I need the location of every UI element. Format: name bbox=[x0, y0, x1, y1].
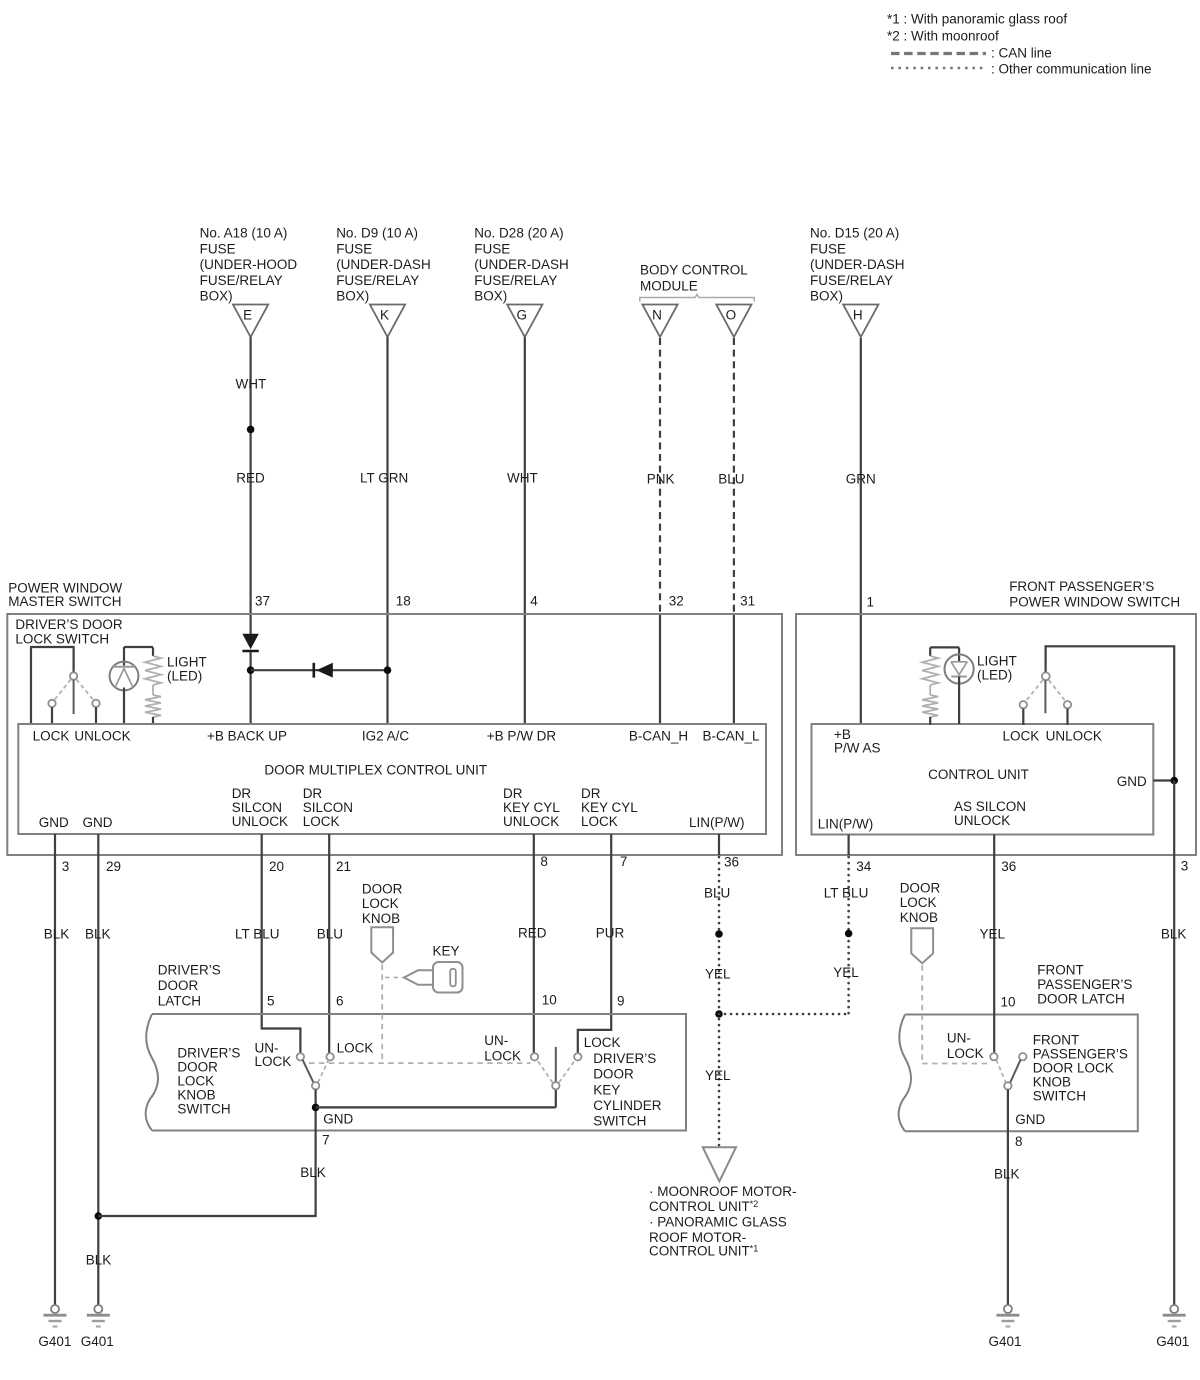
svg-text:FUSE: FUSE bbox=[200, 241, 236, 256]
svg-text:BLK: BLK bbox=[994, 1167, 1020, 1182]
svg-text:PNK: PNK bbox=[647, 472, 675, 487]
svg-text:No. D15 (20 A): No. D15 (20 A) bbox=[810, 226, 899, 241]
svg-text:BOX): BOX) bbox=[474, 289, 507, 304]
svg-text:BOX): BOX) bbox=[200, 289, 233, 304]
passenger lock switch pivot bbox=[1042, 672, 1050, 680]
wire LIN(P/W) passenger pin34 (dotted) bbox=[847, 835, 849, 856]
svg-text:LOCK: LOCK bbox=[303, 814, 340, 829]
wire top arch LED to resistor bbox=[124, 646, 153, 648]
wire BLK passenger pin8 to ground bbox=[1007, 1131, 1009, 1304]
passenger blade to LOCK (dashed) bbox=[1026, 680, 1043, 701]
wire DR SILCON UNLOCK pin20 (LT BLU) bbox=[262, 834, 301, 1053]
svg-text:DR: DR bbox=[503, 786, 523, 801]
svg-text:G401: G401 bbox=[38, 1334, 71, 1349]
second contact (passenger knob switch) bbox=[1019, 1053, 1026, 1060]
ground symbol G401 d bbox=[1163, 1305, 1186, 1327]
svg-text:CONTROL UNIT*2: CONTROL UNIT*2 bbox=[649, 1199, 758, 1214]
wire H to passenger switch (GRN) bbox=[860, 338, 862, 724]
svg-text:LIN(P/W): LIN(P/W) bbox=[689, 815, 745, 830]
svg-text:+B BACK UP: +B BACK UP bbox=[207, 729, 287, 744]
GND stub wire (passenger) bbox=[1153, 779, 1174, 781]
legend CAN line sample bbox=[891, 52, 986, 55]
svg-text:(UNDER-HOOD: (UNDER-HOOD bbox=[200, 257, 298, 272]
svg-text:RED: RED bbox=[518, 926, 547, 941]
driver's door lock switch blade to UNLOCK (dashed) bbox=[76, 680, 93, 700]
knob switch blade (solid) bbox=[303, 1060, 314, 1083]
ground symbol G401 b bbox=[87, 1305, 110, 1327]
svg-text:FUSE/RELAY: FUSE/RELAY bbox=[810, 273, 893, 288]
svg-text:POWER WINDOW: POWER WINDOW bbox=[8, 580, 122, 595]
svg-text:No. D9 (10 A): No. D9 (10 A) bbox=[336, 226, 418, 241]
GND horizontal wire in latch bbox=[316, 1106, 556, 1108]
svg-text:BOX): BOX) bbox=[810, 289, 843, 304]
svg-text:KEY CYL: KEY CYL bbox=[503, 800, 560, 815]
svg-text:LOCK: LOCK bbox=[337, 1040, 374, 1055]
svg-text:DRIVER’S: DRIVER’S bbox=[593, 1051, 656, 1066]
svg-text:LOCK: LOCK bbox=[362, 896, 399, 911]
svg-text:DRIVER’S: DRIVER’S bbox=[177, 1046, 240, 1061]
UN-LOCK contact (passenger knob switch) bbox=[990, 1053, 997, 1060]
GND wire knob switch bbox=[315, 1089, 317, 1130]
svg-text:4: 4 bbox=[530, 594, 538, 609]
svg-text:FUSE/RELAY: FUSE/RELAY bbox=[336, 273, 419, 288]
svg-text:: Other communication line: : Other communication line bbox=[991, 61, 1152, 76]
splice on wire E bbox=[247, 426, 255, 434]
wire diode bridge horizontal bbox=[251, 669, 388, 671]
diode D2 on bridge (pointing left) bbox=[314, 663, 333, 678]
wire BLK from latch pin 7 bbox=[98, 1131, 315, 1217]
junction LIN branch bbox=[715, 1010, 723, 1018]
svg-text:G401: G401 bbox=[988, 1334, 1021, 1349]
LED lamp of master switch bbox=[110, 647, 139, 725]
svg-text:(LED): (LED) bbox=[977, 667, 1012, 682]
junction GND latch bbox=[312, 1104, 320, 1112]
svg-text:34: 34 bbox=[856, 859, 872, 874]
resistor of passenger LED bbox=[922, 647, 938, 725]
power window master switch outer box bbox=[7, 614, 782, 855]
svg-text:IG2 A/C: IG2 A/C bbox=[362, 729, 410, 744]
svg-text:DOOR: DOOR bbox=[177, 1060, 218, 1075]
driver's door lock switch pivot bbox=[70, 672, 77, 679]
svg-text:UNLOCK: UNLOCK bbox=[503, 814, 559, 829]
svg-text:KEY CYL: KEY CYL bbox=[581, 800, 638, 815]
svg-text:BLK: BLK bbox=[44, 927, 70, 942]
svg-text:(UNDER-DASH: (UNDER-DASH bbox=[336, 257, 431, 272]
svg-text:BODY CONTROL: BODY CONTROL bbox=[640, 263, 748, 278]
svg-text:DRIVER’S DOOR: DRIVER’S DOOR bbox=[15, 617, 123, 632]
svg-text:PUR: PUR bbox=[596, 926, 625, 941]
legend other-communication line sample bbox=[891, 67, 987, 70]
door lock knob symbol (driver) bbox=[371, 927, 393, 962]
mechanical link horizontal passenger (dashed) bbox=[922, 1063, 990, 1065]
svg-text:10: 10 bbox=[1001, 994, 1016, 1009]
knob switch pivot bbox=[312, 1082, 319, 1089]
svg-text:LOCK: LOCK bbox=[581, 814, 618, 829]
wire G to master switch (WHT) bbox=[524, 337, 526, 724]
driver's door latch box bbox=[152, 1014, 686, 1131]
splice on pin34 wire bbox=[845, 930, 853, 938]
wire N B-CAN_H (PNK, CAN dashed) bbox=[659, 338, 661, 614]
svg-text:36: 36 bbox=[724, 855, 739, 870]
svg-text:LOCK: LOCK bbox=[900, 895, 937, 910]
UNLOCK contact of driver's door lock switch bbox=[92, 700, 99, 707]
svg-text:N: N bbox=[652, 308, 662, 323]
svg-text:G401: G401 bbox=[81, 1334, 114, 1349]
svg-text:UNLOCK: UNLOCK bbox=[954, 813, 1010, 828]
svg-text:5: 5 bbox=[267, 994, 275, 1009]
svg-text:7: 7 bbox=[322, 1133, 330, 1148]
svg-text:LOCK: LOCK bbox=[255, 1054, 292, 1069]
splice on LIN wire bbox=[715, 930, 723, 938]
knob mechanical link passenger (dashed) bbox=[921, 965, 923, 1063]
body control module bracket bbox=[640, 295, 754, 302]
svg-text:WHT: WHT bbox=[236, 377, 267, 392]
svg-text:BOX): BOX) bbox=[336, 289, 369, 304]
front passenger switch outer box bbox=[796, 614, 1196, 855]
svg-text:DOOR: DOOR bbox=[362, 882, 403, 897]
svg-text:PASSENGER’S: PASSENGER’S bbox=[1033, 1047, 1128, 1062]
door multiplex control unit box bbox=[18, 724, 766, 834]
svg-text:LOCK: LOCK bbox=[584, 1035, 621, 1050]
svg-text:AS SILCON: AS SILCON bbox=[954, 799, 1026, 814]
svg-text:O: O bbox=[726, 308, 737, 323]
svg-text:UNLOCK: UNLOCK bbox=[232, 814, 288, 829]
svg-text:BLK: BLK bbox=[86, 1253, 112, 1268]
wire 37 below diode bbox=[250, 652, 252, 724]
svg-text:No. D28 (20 A): No. D28 (20 A) bbox=[474, 226, 563, 241]
svg-text:21: 21 bbox=[336, 859, 351, 874]
svg-text:3: 3 bbox=[1181, 858, 1189, 873]
svg-text:GND: GND bbox=[39, 815, 69, 830]
svg-text:BLK: BLK bbox=[85, 927, 111, 942]
svg-text:BLU: BLU bbox=[704, 885, 730, 900]
fuse connector K bbox=[370, 305, 405, 338]
svg-text:18: 18 bbox=[396, 594, 411, 609]
svg-text:KNOB: KNOB bbox=[177, 1088, 215, 1103]
wire DR KEY CYL LOCK pin7 (PUR) bbox=[578, 834, 611, 1053]
svg-text:LIGHT: LIGHT bbox=[167, 655, 207, 670]
svg-text:BLU: BLU bbox=[317, 927, 343, 942]
svg-text:LT GRN: LT GRN bbox=[360, 470, 408, 485]
key cylinder pivot bbox=[552, 1082, 559, 1089]
fuse connector H bbox=[843, 305, 878, 338]
svg-text:K: K bbox=[380, 308, 389, 323]
passenger latch wavy edge bbox=[899, 1015, 911, 1132]
svg-text:CONTROL UNIT*1: CONTROL UNIT*1 bbox=[649, 1243, 758, 1258]
wire DR KEY CYL UNLOCK pin8 (RED) bbox=[533, 834, 535, 1053]
svg-text:+B: +B bbox=[834, 727, 851, 742]
svg-text:DR: DR bbox=[232, 786, 252, 801]
passenger knob switch blade dashed bbox=[996, 1060, 1006, 1083]
svg-text:29: 29 bbox=[106, 859, 121, 874]
svg-text:LT BLU: LT BLU bbox=[235, 927, 280, 942]
svg-text:DOOR: DOOR bbox=[158, 978, 199, 993]
wire GND pin 3 (BLK) to ground bbox=[54, 834, 56, 1305]
svg-text:UNLOCK: UNLOCK bbox=[1046, 729, 1102, 744]
svg-text:SWITCH: SWITCH bbox=[177, 1102, 230, 1117]
wire AS SILCON UNLOCK pin36 (YEL) bbox=[993, 835, 995, 1054]
svg-text:31: 31 bbox=[740, 594, 755, 609]
junction GND passenger bbox=[1170, 777, 1178, 785]
svg-text:LOCK: LOCK bbox=[1003, 729, 1040, 744]
svg-text:P/W AS: P/W AS bbox=[834, 741, 881, 756]
svg-text:BLK: BLK bbox=[1161, 927, 1187, 942]
svg-text:DOOR: DOOR bbox=[900, 881, 941, 896]
svg-text:DOOR: DOOR bbox=[593, 1067, 634, 1082]
LOCK contact of driver's door lock switch bbox=[48, 700, 55, 707]
svg-text:*1 : With panoramic glass roof: *1 : With panoramic glass roof bbox=[887, 12, 1067, 27]
svg-text:FUSE: FUSE bbox=[336, 241, 372, 256]
svg-text:8: 8 bbox=[1015, 1134, 1023, 1149]
svg-text:9: 9 bbox=[617, 994, 625, 1009]
driver's door lock switch blade (neutral) bbox=[73, 680, 75, 714]
key symbol bbox=[404, 962, 463, 993]
svg-text:3: 3 bbox=[62, 859, 70, 874]
LOCK contact (knob switch) bbox=[326, 1053, 333, 1060]
svg-text:LT BLU: LT BLU bbox=[824, 886, 869, 901]
junction +B BACK UP bbox=[247, 666, 255, 674]
svg-text:KNOB: KNOB bbox=[1033, 1075, 1071, 1090]
svg-text:FUSE: FUSE bbox=[810, 241, 846, 256]
svg-text:GND: GND bbox=[1015, 1112, 1045, 1127]
svg-text:SILCON: SILCON bbox=[232, 800, 282, 815]
svg-text:(UNDER-DASH: (UNDER-DASH bbox=[474, 257, 569, 272]
svg-text:FUSE/RELAY: FUSE/RELAY bbox=[474, 273, 557, 288]
svg-text:PASSENGER’S: PASSENGER’S bbox=[1037, 977, 1132, 992]
svg-text:+B P/W DR: +B P/W DR bbox=[487, 729, 557, 744]
svg-text:DOOR LOCK: DOOR LOCK bbox=[1033, 1061, 1114, 1076]
fuse connector G bbox=[507, 305, 542, 338]
svg-text:DOOR MULTIPLEX CONTROL UNIT: DOOR MULTIPLEX CONTROL UNIT bbox=[264, 763, 487, 778]
driver's door lock switch common wire bbox=[31, 647, 74, 725]
junction BLK wires bbox=[95, 1212, 103, 1220]
passenger knob switch pivot bbox=[1004, 1082, 1011, 1089]
svg-text:B-CAN_L: B-CAN_L bbox=[702, 729, 760, 744]
svg-text:(LED): (LED) bbox=[167, 668, 202, 683]
UN-LOCK contact (key cyl) bbox=[531, 1053, 538, 1060]
front passenger's door latch box bbox=[905, 1015, 1138, 1132]
passenger knob switch blade solid bbox=[1010, 1060, 1020, 1083]
knob switch blade dashed to LOCK bbox=[318, 1061, 328, 1083]
key cyl blade dashed to UN-LOCK bbox=[538, 1061, 553, 1083]
svg-text:POWER WINDOW SWITCH: POWER WINDOW SWITCH bbox=[1009, 595, 1180, 610]
svg-text:SWITCH: SWITCH bbox=[593, 1114, 646, 1129]
svg-text:FRONT: FRONT bbox=[1037, 963, 1084, 978]
diode D1 on +B BACK UP wire bbox=[242, 634, 258, 651]
svg-text:FRONT: FRONT bbox=[1033, 1033, 1080, 1048]
svg-text:UNLOCK: UNLOCK bbox=[74, 729, 130, 744]
svg-text:7: 7 bbox=[620, 854, 628, 869]
svg-text:YEL: YEL bbox=[705, 967, 731, 982]
svg-text:DR: DR bbox=[303, 786, 323, 801]
wire DR SILCON LOCK pin21 (BLU) bbox=[328, 834, 330, 1053]
svg-text:DOOR LATCH: DOOR LATCH bbox=[1037, 992, 1125, 1007]
svg-text:GND: GND bbox=[83, 815, 113, 830]
svg-text:LATCH: LATCH bbox=[158, 994, 201, 1009]
wire E to master switch (WHT/RED) bbox=[250, 337, 252, 634]
svg-text:MASTER SWITCH: MASTER SWITCH bbox=[8, 594, 121, 609]
GND wire passenger knob switch bbox=[1007, 1090, 1009, 1132]
svg-text:6: 6 bbox=[336, 994, 344, 1009]
svg-text:· MOONROOF MOTOR-: · MOONROOF MOTOR- bbox=[649, 1184, 797, 1199]
svg-text:G401: G401 bbox=[1156, 1334, 1189, 1349]
svg-text:1: 1 bbox=[867, 595, 875, 610]
passenger blade to UNLOCK (dashed) bbox=[1049, 680, 1066, 701]
connector to moonroof unit (open triangle) bbox=[703, 1147, 736, 1181]
svg-text:B-CAN_H: B-CAN_H bbox=[629, 729, 688, 744]
LOCK contact of passenger switch bbox=[1020, 701, 1027, 708]
svg-text:YEL: YEL bbox=[833, 965, 859, 980]
svg-text:GRN: GRN bbox=[846, 472, 876, 487]
driver's door latch wavy edge bbox=[146, 1014, 158, 1131]
svg-text:KNOB: KNOB bbox=[362, 911, 400, 926]
wire GND/pin3 passenger to ground (BLK) bbox=[1173, 781, 1175, 1305]
svg-text:8: 8 bbox=[540, 854, 548, 869]
control unit box (passenger) bbox=[812, 724, 1154, 835]
svg-text:LOCK SWITCH: LOCK SWITCH bbox=[15, 632, 109, 647]
svg-text:G: G bbox=[517, 308, 528, 323]
svg-text:KEY: KEY bbox=[433, 944, 460, 959]
ground symbol G401 c bbox=[996, 1305, 1019, 1327]
door lock knob symbol (passenger) bbox=[911, 928, 933, 963]
junction IG2 A/C bbox=[384, 666, 392, 674]
svg-text:LOCK: LOCK bbox=[33, 729, 70, 744]
driver's door lock switch blade to LOCK (dashed) bbox=[55, 680, 71, 700]
key cylinder blade neutral bbox=[555, 1047, 557, 1082]
wire K to master switch (LT GRN) bbox=[386, 337, 388, 724]
LED lamp of passenger switch bbox=[945, 647, 974, 724]
ground symbol G401 a bbox=[44, 1305, 67, 1327]
svg-text:No. A18 (10 A): No. A18 (10 A) bbox=[200, 226, 288, 241]
svg-text:CONTROL UNIT: CONTROL UNIT bbox=[928, 767, 1029, 782]
svg-text:37: 37 bbox=[255, 594, 270, 609]
svg-text:UN-: UN- bbox=[484, 1033, 508, 1048]
passenger lock switch blade (neutral) bbox=[1044, 680, 1046, 713]
svg-text:KEY: KEY bbox=[593, 1082, 620, 1097]
svg-text:FUSE/RELAY: FUSE/RELAY bbox=[200, 273, 283, 288]
svg-text:SWITCH: SWITCH bbox=[1033, 1089, 1086, 1104]
passenger lock switch common wire bbox=[1046, 646, 1175, 780]
svg-text:E: E bbox=[243, 308, 252, 323]
svg-text:YEL: YEL bbox=[980, 927, 1006, 942]
svg-text:H: H bbox=[853, 308, 863, 323]
svg-text:36: 36 bbox=[1001, 859, 1016, 874]
fuse connector E bbox=[233, 305, 268, 338]
wire LIN branch horizontal (dotted) bbox=[719, 1013, 849, 1016]
svg-text:UN-: UN- bbox=[947, 1030, 971, 1045]
svg-text:: CAN line: : CAN line bbox=[991, 46, 1052, 61]
svg-text:DR: DR bbox=[581, 786, 601, 801]
svg-text:KNOB: KNOB bbox=[900, 910, 938, 925]
key cyl blade dashed to LOCK bbox=[559, 1061, 575, 1083]
wire O B-CAN_L (BLU, CAN dashed) bbox=[733, 338, 735, 614]
UNLOCK contact of passenger switch bbox=[1064, 701, 1071, 708]
key cylinder common down wire bbox=[555, 1089, 557, 1107]
wire GND pin 29 (BLK) to ground bbox=[97, 834, 99, 1305]
resistor of master switch LED bbox=[145, 647, 161, 725]
svg-text:GND: GND bbox=[323, 1111, 353, 1126]
svg-text:· PANORAMIC GLASS: · PANORAMIC GLASS bbox=[649, 1215, 787, 1230]
svg-text:YEL: YEL bbox=[705, 1068, 731, 1083]
svg-text:LOCK: LOCK bbox=[947, 1046, 984, 1061]
svg-text:20: 20 bbox=[269, 859, 284, 874]
svg-text:32: 32 bbox=[669, 594, 684, 609]
svg-text:CYLINDER: CYLINDER bbox=[593, 1098, 662, 1113]
svg-text:DRIVER’S: DRIVER’S bbox=[158, 963, 221, 978]
key mechanical link (dashed) bbox=[385, 977, 403, 979]
mechanical link horizontal (dashed) bbox=[309, 1062, 531, 1064]
svg-text:LIN(P/W): LIN(P/W) bbox=[818, 816, 874, 831]
connector O bbox=[716, 305, 751, 338]
knob mechanical link (dashed) bbox=[381, 965, 383, 1064]
svg-text:MODULE: MODULE bbox=[640, 278, 698, 293]
svg-text:LOCK: LOCK bbox=[484, 1048, 521, 1063]
svg-text:*2 : With moonroof: *2 : With moonroof bbox=[887, 28, 999, 43]
svg-text:RED: RED bbox=[236, 470, 265, 485]
UN-LOCK contact (knob switch) bbox=[297, 1053, 304, 1060]
wire LIN(P/W) master pin36 (dotted) bbox=[718, 834, 720, 855]
svg-text:BLU: BLU bbox=[718, 472, 744, 487]
LOCK contact (key cyl) bbox=[574, 1053, 581, 1060]
svg-text:GND: GND bbox=[1117, 774, 1147, 789]
svg-text:LOCK: LOCK bbox=[177, 1074, 214, 1089]
svg-text:SILCON: SILCON bbox=[303, 800, 353, 815]
svg-text:LIGHT: LIGHT bbox=[977, 654, 1017, 669]
svg-text:FUSE: FUSE bbox=[474, 241, 510, 256]
svg-text:UN-: UN- bbox=[255, 1040, 279, 1055]
svg-text:(UNDER-DASH: (UNDER-DASH bbox=[810, 257, 905, 272]
svg-text:FRONT PASSENGER’S: FRONT PASSENGER’S bbox=[1009, 579, 1154, 594]
svg-text:WHT: WHT bbox=[507, 470, 538, 485]
svg-text:10: 10 bbox=[542, 993, 557, 1008]
svg-text:BLK: BLK bbox=[300, 1165, 326, 1180]
wire arch resistor to LED (passenger) bbox=[930, 646, 959, 648]
connector N bbox=[642, 305, 677, 338]
